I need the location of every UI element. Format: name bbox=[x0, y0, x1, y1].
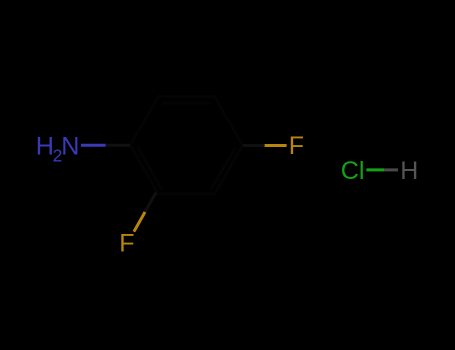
wire: Cl-H bond hydrogen half (gray) bbox=[384, 168, 398, 171]
wire: C2-F bond fluorine half (gold) bbox=[134, 212, 145, 232]
wire: C1-N bond nitrogen half (blue) bbox=[81, 144, 106, 147]
benzene ring C1-C6 (black bonds, nearly invisible on black) bbox=[130, 97, 242, 194]
amine label H2N bbox=[36, 133, 80, 166]
wire: Cl-H bond chlorine half (green) bbox=[366, 168, 384, 171]
svg-text:F: F bbox=[289, 132, 304, 160]
svg-text:N: N bbox=[61, 133, 79, 161]
wire: C2-F bond carbon half (black) bbox=[145, 192, 156, 212]
svg-text:H: H bbox=[400, 157, 418, 185]
aromatic inner double bond top bbox=[162, 102, 211, 105]
svg-text:F: F bbox=[119, 230, 134, 258]
wire: C1-N bond carbon half (black) bbox=[106, 144, 131, 147]
wire: C4-F bond carbon half (black) bbox=[243, 144, 265, 147]
aromatic inner double bond lower-left bbox=[138, 148, 162, 190]
wire: C4-F bond fluorine half (gold) bbox=[265, 144, 287, 147]
svg-text:Cl: Cl bbox=[341, 157, 365, 185]
aromatic inner double bond lower-right bbox=[211, 148, 235, 190]
svg-text:H: H bbox=[36, 133, 54, 161]
